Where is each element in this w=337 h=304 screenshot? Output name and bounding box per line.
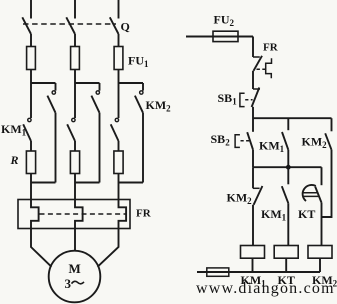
contact KM1 main pole 3 blade [111,124,119,141]
wire rail2 to KM2 NC [252,167,254,188]
FR heater element 1 [31,200,39,229]
button SB1 seat tick [253,88,260,90]
contact KM1 main pole 1 terminal circle [28,118,31,121]
label tilde of 3~ [72,281,85,284]
coil KT [274,246,298,259]
switch Q pole 2 blade [66,17,75,34]
svg-text:FU1: FU1 [128,53,149,69]
wire rejoin 2 horizontal [75,182,100,184]
wire KM2 branch 1 down [55,113,57,183]
svg-text:www.diangon.com: www.diangon.com [196,280,335,297]
resistor R phase 2 [70,151,79,174]
wire rail2 horizontal [253,166,322,168]
svg-text:KM2: KM2 [227,191,253,207]
wire L1 node to KM1 contact [30,83,32,118]
wire KM1 blade to resistor 2 [74,141,76,151]
contact KM1 main pole 3 terminal circle [115,118,118,121]
FR release link dashed [257,68,266,70]
switch Q pole 3 blade [110,17,119,34]
svg-text:SB2: SB2 [211,132,231,148]
coil KM1 [241,246,265,259]
svg-text:M: M [69,261,81,276]
svg-text:Q: Q [121,20,130,34]
wire KM1 blade to resistor 1 [30,141,32,151]
contact KM1 NO stub [287,167,289,184]
wire rail2 to KT contact [321,167,323,185]
contact KM2 main pole 3 blade [135,96,143,113]
svg-text:FU2: FU2 [214,13,235,29]
contact KM1 main pole 1 blade [23,124,31,141]
contact KM2 main pole 3 stub [142,83,144,91]
fuse bottom rail [207,268,229,276]
wire branch node 3 horizontal [119,82,144,84]
fuse FU1 pole 1 [27,47,36,70]
wire KM1 aux to rail2 [287,150,289,167]
junction node rail2 [286,165,291,170]
wire L3 fuse to branch node [118,70,120,84]
wire bottom rail [197,271,320,273]
wire KM2 branch 2 down [99,113,101,183]
button SB2 actuator [235,135,240,148]
wire coil KT to bottom rail [285,258,287,272]
wire L3 switch to fuse [118,34,120,47]
wire L1 fuse to branch node [30,70,32,84]
svg-text:KT: KT [298,207,315,221]
contact KM2 main pole 2 terminal circle [96,91,99,94]
contact KM2 NC blade [254,186,263,205]
contact KM1 aux stub [287,118,289,130]
button SB2 blade [247,132,253,150]
wire FR to motor right [98,229,119,267]
wire phase L2 top [74,0,76,19]
contact KM1 main pole 2 blade [67,124,75,141]
switch Q pole 1 blade [22,17,31,34]
contact KT delay damper lines [303,193,319,197]
FR release element [266,58,272,78]
wire SB1 to rail1 [252,107,254,132]
fuse FU1 pole 3 [114,47,123,70]
thermal relay FR box [18,200,130,229]
wire L2 switch to fuse [74,34,76,47]
fuse FU1 pole 2 [71,47,80,70]
contact KM2 main pole 2 stub [99,83,101,91]
svg-text:KM2: KM2 [146,98,172,114]
svg-text:SB1: SB1 [218,91,238,107]
wire coil KM2 to bottom rail [319,258,321,272]
coil KM2 [308,246,332,259]
FR linkage dashed [40,213,127,215]
resistor R phase 1 [26,151,35,174]
wire L2 fuse to branch node [74,70,76,84]
contact KM2 main pole 2 blade [91,96,99,113]
wire coil KM1 to bottom rail [252,258,254,272]
wire branch node 2 horizontal [75,82,100,84]
FR heater element 2 [75,200,83,229]
svg-text:KM1: KM1 [261,207,287,223]
svg-text:3: 3 [65,276,72,291]
wire branch node 1 horizontal [31,82,56,84]
wire KM2 NC to coil KM1 [252,205,254,246]
contact KM2 NC seat tick [253,187,260,189]
resistor R phase 3 [114,151,123,174]
wire L2 node to KM1 contact [74,83,76,118]
motor M circle [49,251,101,303]
switch Q linkage dashed [23,23,116,25]
contact FR NC seat tick [253,56,260,58]
wire FR contact to SB1 [252,71,254,89]
svg-text:KM2: KM2 [302,135,328,151]
svg-text:KM1: KM1 [1,122,27,138]
contact KM1 main pole 2 terminal circle [72,118,75,121]
wire resistor 3 to FR [118,174,120,200]
contact FR NC blade [254,56,263,71]
contact KM2 aux blade [325,133,331,150]
wire resistor 1 to FR [30,174,32,200]
wire KM2 branch 3 down [142,113,144,183]
wire FR to motor middle [74,229,76,251]
svg-text:FR: FR [136,208,152,220]
wire FU2 feed horizontal [186,36,253,38]
contact KM2 aux stub [331,118,333,131]
svg-text:R: R [10,153,19,167]
wire L1 switch to fuse [30,34,32,47]
contact KT delay blade [315,187,321,203]
contact KM2 main pole 1 stub [55,83,57,91]
button SB2 link dashed [241,140,251,142]
wire control column to FR contact [252,37,254,58]
button SB1 actuator [240,93,245,106]
wire L3 node to KM1 contact [118,83,120,118]
wire SB2 to rail2 [252,150,254,168]
svg-text:KM1: KM1 [259,139,285,155]
contact KM2 main pole 1 blade [47,96,55,113]
contact KM1 NO blade [282,186,289,203]
wire phase L1 top [30,0,32,19]
contact KM2 main pole 3 terminal circle [140,91,143,94]
wire KM2 aux down [322,150,332,217]
wire KM1 NO to coil KT [287,203,289,245]
wire rail1 horizontal [253,117,332,119]
wire FR to motor left [31,229,52,267]
wire rejoin 1 horizontal [31,182,56,184]
button SB1 blade [252,88,260,108]
wire phase L3 top [118,0,120,19]
contact KM1 aux blade [282,132,288,150]
wire KT contact to coil KM2 [321,203,323,246]
fuse FU2 [213,31,238,41]
contact KM2 main pole 1 terminal circle [52,91,55,94]
contact KT delay arc [303,185,316,201]
wire resistor 2 to FR [74,174,76,200]
svg-text:FR: FR [263,42,279,54]
FR heater element 3 [119,200,127,229]
button SB1 link dashed [245,99,252,101]
wire KM1 blade to resistor 3 [118,141,120,151]
wire rejoin 3 horizontal [119,182,144,184]
